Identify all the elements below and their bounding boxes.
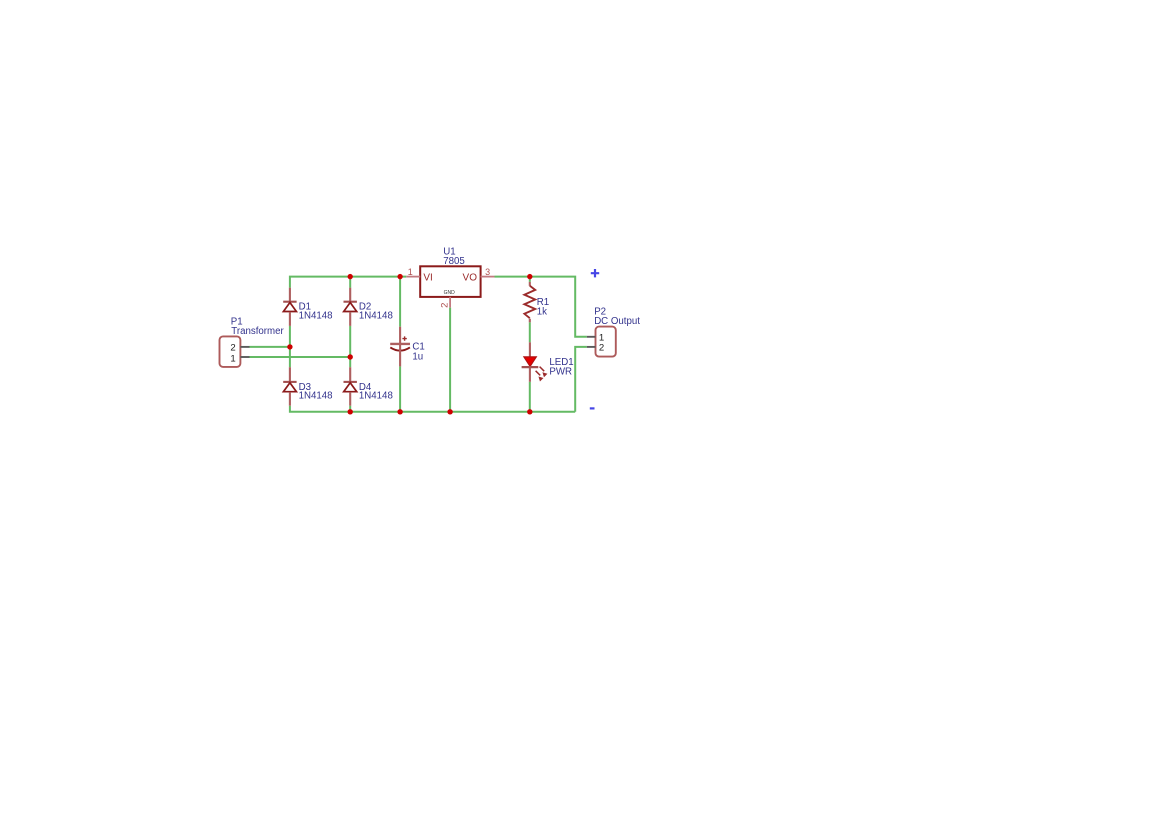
U1 pin 3 stub [481, 276, 495, 278]
connector P1 body [220, 336, 241, 367]
wire P2 pin2 down to bottom rail [575, 347, 587, 412]
svg-text:1N4148: 1N4148 [299, 391, 333, 402]
net label + [591, 269, 599, 277]
P2 pin 2 stub [587, 346, 596, 348]
LED light arrows [540, 367, 545, 372]
P1 pin 2 stub [240, 346, 249, 348]
U1 pin 2 stub (GND) [449, 297, 451, 308]
wire top rail left segment [290, 277, 406, 288]
junction node top D2 [348, 274, 353, 279]
svg-text:1N4148: 1N4148 [299, 310, 333, 321]
svg-text:1u: 1u [412, 352, 423, 363]
wire C1 top [399, 277, 401, 327]
capacitor C1 [390, 327, 410, 367]
diode D4 [344, 367, 357, 406]
svg-text:7805: 7805 [443, 256, 465, 267]
svg-text:3: 3 [485, 267, 490, 277]
net label - [590, 407, 595, 409]
svg-text:1k: 1k [537, 306, 547, 317]
svg-text:DC Output: DC Output [594, 316, 640, 327]
wire bottom rail [290, 406, 575, 412]
wire D2 column mid [349, 326, 351, 367]
op-amp U1 regulator 7805 body [420, 266, 480, 297]
wire C1 bottom [399, 366, 401, 411]
svg-text:1N4148: 1N4148 [359, 391, 393, 402]
resistor R1 [524, 282, 535, 322]
junction node bottom D4 [348, 409, 353, 414]
wire D2 column top stub [349, 277, 351, 288]
svg-text:VI: VI [423, 272, 432, 283]
junction node top C1 [397, 274, 402, 279]
LED LED1 [522, 342, 547, 382]
svg-text:2: 2 [230, 342, 235, 353]
wire top rail right segment (VO to + rail, down to P2 pin1) [495, 277, 587, 337]
P1 pin 1 stub [240, 356, 249, 358]
junction node top R1 [527, 274, 532, 279]
junction node B (P1 pin1 / D2-D4) [348, 354, 353, 359]
svg-text:Transformer: Transformer [231, 326, 284, 337]
diode D3 [283, 367, 296, 406]
svg-text:1: 1 [230, 353, 235, 364]
U1 pin 1 stub [406, 276, 420, 278]
svg-text:VO: VO [463, 272, 478, 283]
wire LED1 cathode to bottom rail [529, 382, 531, 412]
junction node bottom LED1 [527, 409, 532, 414]
wire R1 top stub [529, 277, 531, 282]
svg-text:2: 2 [599, 342, 604, 353]
wire P1 pin1 to node B [250, 356, 351, 358]
svg-text:2: 2 [440, 303, 451, 308]
diode D1 [283, 288, 296, 326]
wire U1 GND to bottom rail [449, 308, 451, 412]
junction node A (P1 pin2 / D1-D3) [287, 344, 292, 349]
svg-text:PWR: PWR [549, 366, 572, 377]
junction node bottom GND pin [447, 409, 452, 414]
connector P2 body [596, 327, 616, 357]
wire D1 column mid (D1 anode to D3 cathode) [289, 326, 291, 367]
wire R1 to LED1 [529, 322, 531, 342]
P2 pin 1 stub [587, 336, 596, 338]
junction node bottom C1 [397, 409, 402, 414]
svg-text:GND: GND [444, 290, 456, 296]
wire P1 pin2 to node A [250, 346, 290, 348]
diode D2 [344, 288, 357, 326]
svg-text:1: 1 [408, 267, 413, 277]
svg-text:1N4148: 1N4148 [359, 310, 393, 321]
wire D4 column bottom stub [349, 406, 351, 412]
